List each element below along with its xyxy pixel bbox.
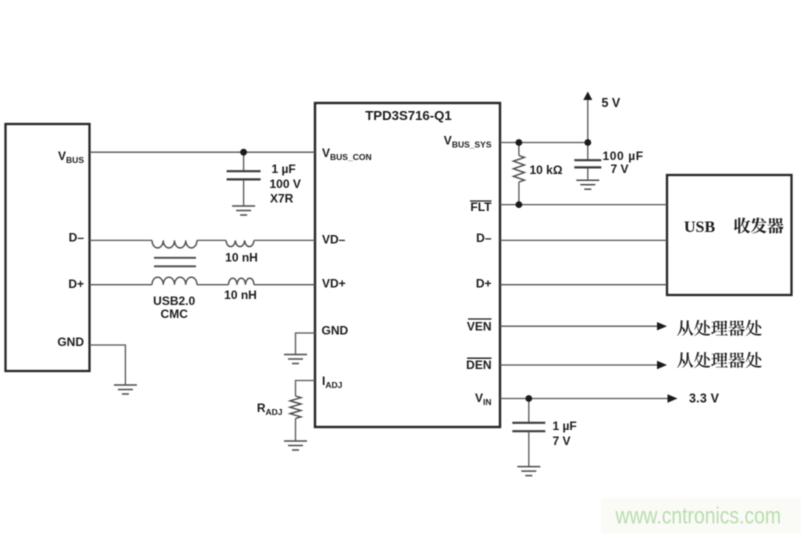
- svg-text:CMC: CMC: [161, 307, 189, 321]
- wire D- (U1 to transceiver): [500, 239, 667, 241]
- wire VIN to 3.3V: [500, 398, 668, 400]
- IC U1 TPD3S716-Q1 box: [315, 103, 500, 427]
- watermark backdrop: [601, 498, 801, 533]
- wire D+ (U1 to transceiver): [500, 284, 667, 286]
- USB transceiver box U2: [667, 175, 792, 295]
- svg-text:D+: D+: [68, 277, 84, 291]
- wire D+ (connector to CMC): [90, 284, 153, 286]
- svg-text:100 V: 100 V: [270, 177, 301, 191]
- wire DEN arrow to processor: [500, 364, 658, 366]
- label 从处理器处 (VEN): [677, 320, 693, 336]
- wire VBUS_SYS to 5V node: [500, 142, 588, 144]
- 5V supply arrow: [587, 100, 589, 143]
- resistor R1 10 kOhm: [518, 143, 520, 156]
- junction node VBUS_SYS/C2/5V: [584, 139, 591, 146]
- wire IADJ stub to RADJ: [296, 381, 316, 397]
- svg-text:7 V: 7 V: [553, 434, 571, 448]
- capacitor C1 1uF 100V X7R: [243, 152, 245, 171]
- svg-text:VD+: VD+: [322, 277, 346, 291]
- inductor L1 10 nH (D- line): [226, 240, 254, 246]
- svg-text:1 µF: 1 µF: [553, 419, 577, 433]
- inductor L2 10 nH (D+ line): [229, 278, 255, 285]
- junction node VBUS_SYS/R1: [516, 139, 523, 146]
- svg-text:10 kΩ: 10 kΩ: [530, 163, 563, 177]
- svg-text:D–: D–: [476, 231, 492, 245]
- svg-text:VEN: VEN: [467, 320, 492, 334]
- wire D- (connector to CMC): [90, 239, 153, 241]
- svg-text:5 V: 5 V: [602, 96, 621, 110]
- junction node VIN/C3: [525, 395, 532, 402]
- svg-text:X7R: X7R: [270, 192, 294, 206]
- ground (C3): [517, 467, 540, 476]
- common-mode choke CMC coil 1 (D- line): [152, 240, 197, 248]
- svg-text:TPD3S716-Q1: TPD3S716-Q1: [365, 108, 452, 123]
- svg-text:10 nH: 10 nH: [224, 288, 257, 302]
- svg-text:USB2.0: USB2.0: [153, 294, 195, 308]
- svg-text:D+: D+: [476, 277, 492, 291]
- svg-text:DEN: DEN: [466, 358, 491, 372]
- capacitor C3 1uF 7V: [528, 399, 530, 423]
- ground (RADJ): [284, 441, 307, 450]
- svg-text:USB: USB: [684, 219, 715, 236]
- ground (U1 GND): [284, 355, 307, 364]
- svg-text:GND: GND: [322, 324, 349, 338]
- resistor RADJ: [290, 396, 301, 418]
- ground (C2): [576, 180, 599, 189]
- svg-text:1 µF: 1 µF: [272, 162, 296, 176]
- junction node FLT/R1: [516, 201, 523, 208]
- svg-text:100 µF: 100 µF: [603, 149, 644, 163]
- wire VBUS to VBUS_CON: [90, 151, 316, 153]
- wire FLT to transceiver: [500, 204, 667, 206]
- capacitor C2 100uF 7V: [587, 143, 589, 160]
- USB connector box J1: [6, 124, 90, 371]
- svg-text:3.3 V: 3.3 V: [689, 392, 720, 406]
- svg-text:7 V: 7 V: [611, 162, 629, 176]
- wire D- (CMC to L1): [197, 239, 226, 241]
- wire D- (L1 to VD-): [254, 239, 315, 241]
- svg-text:D–: D–: [69, 231, 85, 245]
- wire U1 GND stub to ground: [296, 333, 316, 355]
- junction node VBUS/C1: [240, 149, 247, 156]
- svg-text:GND: GND: [57, 335, 84, 349]
- ground (connector GND): [114, 385, 137, 394]
- wire D+ (L2 to VD+): [254, 284, 315, 286]
- CMC coil 2 (D+ line): [152, 277, 197, 285]
- svg-text:10 nH: 10 nH: [225, 250, 258, 264]
- svg-text:VD–: VD–: [322, 233, 346, 247]
- svg-text:FLT: FLT: [470, 200, 492, 214]
- ground (C1): [232, 206, 255, 215]
- svg-text:www.cntronics.com: www.cntronics.com: [615, 503, 781, 529]
- wire connector GND to ground: [90, 345, 126, 385]
- label 从处理器处 (DEN): [677, 352, 693, 368]
- wire D+ (CMC to L2): [197, 284, 229, 286]
- wire VEN arrow to processor: [500, 325, 658, 327]
- CMC core lines: [154, 257, 196, 259]
